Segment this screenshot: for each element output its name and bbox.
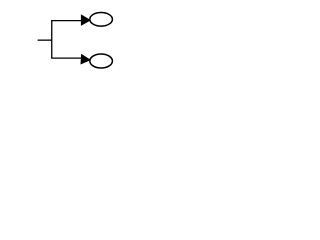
wire: bottom branch: [51, 57, 82, 59]
node: top ellipse: [90, 13, 113, 27]
wire: top branch: [51, 20, 82, 22]
wire: vertical bus: [51, 21, 53, 58]
node: bottom ellipse: [90, 54, 113, 68]
wire: input stub: [38, 39, 52, 41]
arrowhead: bottom: [81, 54, 92, 65]
arrowhead: top: [81, 14, 91, 26]
